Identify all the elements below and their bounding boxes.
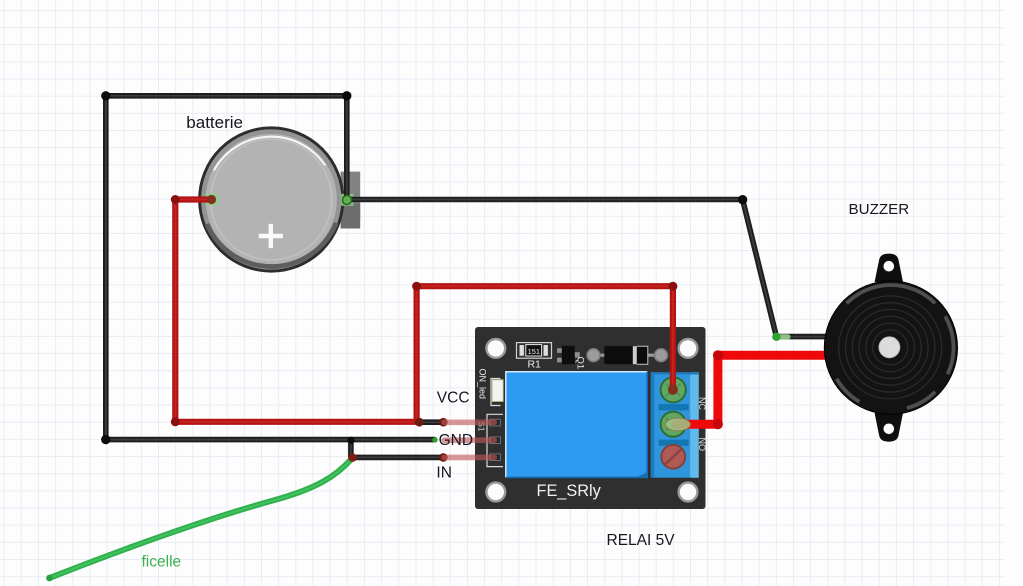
mounting hole top-right bbox=[679, 339, 698, 358]
wire red branch VCC junction to NC terminal bbox=[417, 286, 673, 422]
diode D1 lead bbox=[594, 354, 662, 357]
cap bend GND corner bbox=[101, 435, 110, 444]
mounting hole bottom-left bbox=[486, 483, 505, 502]
battery tab bbox=[341, 172, 361, 219]
cap battery+ wire end bbox=[207, 195, 216, 204]
LED footprint bracket bbox=[491, 379, 501, 406]
LED body bbox=[492, 380, 503, 402]
cap bend red NC corner 2 bbox=[668, 282, 677, 291]
node buzzer black lead (green) bbox=[775, 334, 791, 339]
cap junction GND/IN bbox=[347, 437, 354, 444]
diode pad left bbox=[587, 349, 600, 362]
svg-text:IN: IN bbox=[436, 465, 452, 482]
wire red NO terminal to buzzer bbox=[676, 355, 850, 424]
buzzer bottom ear hole bbox=[884, 424, 895, 435]
cap IN pin end bbox=[439, 453, 448, 462]
svg-text:RELAI 5V: RELAI 5V bbox=[607, 532, 676, 549]
resistor R1 body bands bbox=[520, 345, 524, 356]
resistor R1 value box 151 bbox=[526, 345, 542, 356]
pin header pad 3 bbox=[490, 454, 500, 461]
node GND pin end (green) bbox=[432, 437, 437, 442]
svg-text:ficelle: ficelle bbox=[142, 553, 182, 570]
svg-text:151: 151 bbox=[528, 347, 540, 356]
terminal separator 1 bbox=[659, 404, 689, 410]
node battery- terminal bbox=[343, 196, 352, 205]
cap green wire end bbox=[46, 575, 53, 582]
transistor Q1 bbox=[557, 348, 563, 353]
resistor R1 outline bbox=[517, 343, 552, 359]
svg-text:NC: NC bbox=[697, 397, 707, 410]
wire black battery- top loop bbox=[106, 96, 347, 200]
buzzer bottom mounting ear bbox=[875, 413, 903, 442]
battery coin body bbox=[200, 128, 343, 271]
svg-text:batterie: batterie bbox=[186, 113, 243, 132]
cap bend red battery corner 1 bbox=[171, 195, 180, 204]
wire red battery+ to VCC junction bbox=[175, 200, 419, 422]
cap bend red NC corner 1 bbox=[412, 282, 421, 291]
cap bend bright red corner 2 bbox=[713, 350, 723, 360]
cap bend bright red corner 1 bbox=[713, 419, 723, 429]
screw terminal NO (green) bbox=[661, 412, 686, 437]
screw terminal COM (red) bbox=[661, 445, 685, 469]
cap VCC pin end bbox=[439, 418, 448, 427]
buzzer center hole bbox=[879, 337, 900, 358]
wire green ficelle bbox=[50, 460, 352, 579]
battery terminal pad right bbox=[341, 194, 354, 206]
pin header pad 2 bbox=[490, 437, 500, 444]
diode body bbox=[604, 346, 648, 364]
wire black IN branch bbox=[351, 440, 443, 458]
buzzer rim light arcs bbox=[802, 259, 979, 436]
wire black battery- left drop to GND bbox=[106, 96, 435, 440]
pin header pad 1 bbox=[490, 419, 500, 426]
cap bend red battery corner 2 bbox=[171, 417, 180, 426]
mounting hole top-left bbox=[486, 339, 505, 358]
wire black VCC stub bbox=[419, 419, 443, 425]
battery metallic rim bbox=[203, 132, 339, 268]
cap bend top-right bbox=[342, 91, 351, 100]
cap bend top-left bbox=[101, 91, 110, 100]
cap red junction at VCC bbox=[415, 418, 424, 427]
pin GND overlay bbox=[441, 437, 497, 443]
svg-text:Q1: Q1 bbox=[575, 357, 586, 370]
screw terminal NC (green) bbox=[661, 377, 686, 402]
svg-text:ON_led: ON_led bbox=[478, 369, 488, 400]
buzzer top mounting ear bbox=[875, 254, 903, 282]
pin header footprint bracket bbox=[487, 414, 503, 466]
battery plus symbol bbox=[259, 224, 283, 248]
terminal block body bbox=[651, 372, 699, 477]
relay cube blue bbox=[505, 371, 647, 478]
wire black battery- to buzzer bbox=[347, 200, 846, 337]
diode pad right bbox=[655, 349, 668, 362]
buzzer top ear hole bbox=[884, 261, 895, 272]
cap bend buzzer black corner bbox=[738, 195, 747, 204]
svg-text:VCC: VCC bbox=[437, 390, 470, 407]
terminal separator 2 bbox=[659, 440, 689, 446]
buzzer body bbox=[824, 281, 957, 414]
svg-text:GND: GND bbox=[439, 432, 473, 449]
buzzer concentric rings bbox=[839, 296, 942, 399]
svg-text:R1: R1 bbox=[527, 358, 541, 370]
battery rim bottom shadow arc bbox=[207, 223, 336, 267]
pin VCC overlay bbox=[441, 420, 497, 426]
battery terminal pad left bbox=[206, 194, 219, 206]
pin IN overlay bbox=[441, 455, 497, 461]
battery inner light ring bbox=[211, 139, 332, 260]
battery top highlight arc bbox=[214, 137, 325, 171]
node NO screw wire end (light green) bbox=[666, 418, 691, 431]
relay module PCB bbox=[475, 327, 706, 509]
cap IN wire left end bbox=[348, 454, 356, 462]
svg-text:NO: NO bbox=[697, 438, 707, 452]
cap red wire at NC screw bbox=[668, 385, 678, 395]
svg-text:FE_SRly: FE_SRly bbox=[537, 482, 602, 500]
mounting hole bottom-right bbox=[679, 483, 698, 502]
svg-text:BUZZER: BUZZER bbox=[849, 201, 910, 218]
